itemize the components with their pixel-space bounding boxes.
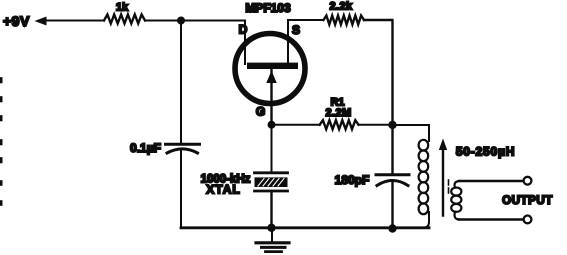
inductor T1 secondary winding (451, 181, 461, 220)
transistor Q1 MPF103 JFET (235, 34, 305, 125)
wire secondary bottom to output terminal (459, 218, 524, 220)
capacitor 0.1uF (166, 144, 200, 228)
svg-text:D: D (239, 23, 248, 37)
wire resistor to top node (145, 20, 245, 22)
svg-text:50-250µH: 50-250µH (456, 145, 515, 159)
adjustable core arrow (439, 139, 449, 216)
node junction gate (268, 121, 276, 129)
svg-text:+9V: +9V (3, 13, 30, 29)
svg-text:2.2k: 2.2k (329, 1, 352, 13)
inductor T1 primary winding (419, 140, 429, 214)
svg-text:180pF: 180pF (335, 173, 370, 187)
wire scan edge marks (0, 79, 3, 205)
wire R1 to right rail (359, 124, 393, 126)
terminal output bottom (524, 216, 532, 224)
wire drain lead (244, 21, 246, 65)
resistor R1 2.2M (320, 120, 359, 129)
wire left rail down (180, 21, 182, 143)
crystal Y1 1000-kHz XTAL (255, 173, 288, 228)
svg-text:XTAL: XTAL (206, 183, 240, 197)
wire gate to resistor R1 (272, 124, 320, 126)
wire arrowhead at +9V (35, 17, 47, 26)
svg-text:OUTPUT: OUTPUT (502, 195, 553, 207)
capacitor 180pF (376, 175, 409, 230)
node junction crystal / bottom rail (267, 224, 275, 232)
wire bottom rail (181, 226, 429, 229)
terminal output top (524, 177, 532, 185)
wire +9V to resistor R (1k) (46, 20, 105, 22)
svg-text:1k: 1k (116, 2, 129, 14)
svg-text:MPF103: MPF103 (245, 1, 291, 15)
svg-text:S: S (292, 23, 300, 37)
svg-text:2.2M: 2.2M (325, 107, 351, 119)
wire source lead (287, 21, 289, 65)
svg-text:0.1µF: 0.1µF (130, 141, 161, 155)
wire primary bottom to rail (423, 212, 429, 228)
node junction at top rail (177, 17, 185, 25)
wire source to resistor 2.2k (288, 19, 324, 21)
svg-text:G: G (256, 105, 265, 119)
wire gate to crystal (271, 125, 273, 172)
node junction right rail / bottom rail (388, 224, 396, 232)
node junction right rail / R1 (388, 121, 396, 129)
wire right rail to transformer primary (393, 125, 430, 141)
resistor 1k (104, 15, 145, 24)
ground (256, 228, 289, 252)
wire secondary top to output terminal (459, 180, 524, 182)
wire 2.2k to right rail corner (364, 20, 393, 173)
resistor 2.2k (324, 16, 365, 25)
